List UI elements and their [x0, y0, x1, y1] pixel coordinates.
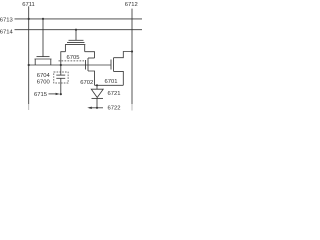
junction dot rail y65 x line 6711 [28, 64, 30, 66]
svg-text:6700: 6700 [37, 80, 51, 86]
transistor Q6704 channel bar [35, 58, 52, 60]
wire gate lead of Q6704 from bus 6713 [42, 19, 44, 57]
transistor Q6705 channel bar [65, 44, 85, 46]
wire vertical line 6711 [28, 6, 30, 104]
svg-text:6714: 6714 [0, 30, 14, 36]
diode D6721 cathode bar [92, 97, 104, 99]
wire gate lead of Q6705 from bus 6714 [75, 30, 77, 41]
junction dot bus6713 x line6711 [28, 18, 30, 20]
transistor Q6704 gate bar [37, 56, 50, 58]
wire Q6705 drain to Q6702 drain [85, 52, 95, 58]
arrowhead terminal 6722 pointing left [87, 107, 92, 109]
svg-text:6701: 6701 [104, 79, 117, 85]
wire terminal line 6722 [89, 107, 103, 109]
wire bus 6714 (horizontal line) [15, 29, 143, 31]
svg-text:6705: 6705 [66, 55, 79, 61]
transistor Q6704 right drain leg [50, 59, 52, 65]
wire vertical line 6712 [131, 9, 133, 104]
wire node line y85.3 [95, 84, 124, 86]
wire capacitor top lead [60, 65, 62, 75]
dashed box around capacitor C6715 [54, 72, 68, 83]
wire Q6701 top drain leg to wire y51.5 [114, 52, 133, 58]
fading end of line 6712 [131, 104, 133, 111]
wire Q6702 bottom source leg to node line [88, 71, 95, 85]
transistor Q6705 left source leg [64, 45, 66, 52]
fading end of line 6711 [28, 104, 30, 110]
dashed line under transistor Q6705 [59, 60, 85, 62]
transistor Q6701 channel bar [113, 58, 115, 72]
svg-text:6712: 6712 [125, 2, 138, 8]
svg-text:6702: 6702 [80, 80, 93, 86]
transistor Q6701 gate bar [110, 60, 112, 70]
svg-text:6704: 6704 [37, 73, 51, 79]
label leader arrow for 6715 pointing right [49, 93, 57, 95]
wire diode cathode lead [96, 98, 98, 107]
junction dot node y85.3 x diode lead [96, 84, 98, 86]
junction dot bus6714 x gate lead Q6705 [75, 29, 77, 31]
wire Q6701 bottom source leg to node line [114, 71, 124, 85]
junction dot capacitor bottom node [60, 93, 62, 95]
wire Q6702 top drain leg [88, 57, 95, 59]
junction dot terminal 6722 [96, 107, 98, 109]
wire horizontal rail at y65 [29, 64, 111, 66]
svg-text:6711: 6711 [22, 2, 35, 8]
transistor Q6702 gate bar [85, 60, 87, 70]
wire capacitor bottom lead [60, 78, 62, 94]
junction dot bus6713 x gate lead Q6704 [42, 18, 44, 20]
transistor Q6705 control gate bar [69, 39, 84, 41]
transistor Q6702 channel bar [87, 58, 89, 71]
wire bus 6713 (horizontal line) [15, 18, 143, 20]
capacitor C6715 bottom plate [56, 77, 65, 79]
wire diode anode lead [96, 85, 98, 89]
diode D6721 triangle [91, 89, 103, 97]
svg-text:6722: 6722 [107, 106, 120, 112]
capacitor C6715 top plate [56, 74, 65, 76]
junction dot rail y65 x capacitor node [60, 64, 62, 66]
junction dot wire y51.5 x line 6712 [131, 50, 133, 52]
transistor Q6705 right drain leg [84, 45, 86, 52]
wire Q6705 source to node [61, 52, 66, 65]
svg-text:6713: 6713 [0, 17, 13, 23]
svg-text:6721: 6721 [107, 91, 120, 97]
svg-text:6715: 6715 [34, 92, 47, 98]
transistor Q6705 floating gate bar [67, 41, 85, 43]
transistor Q6704 left source leg [34, 59, 36, 65]
